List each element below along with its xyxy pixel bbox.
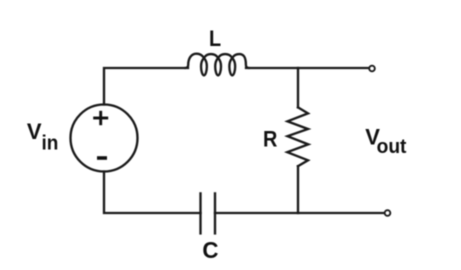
svg-text:C: C: [202, 237, 218, 263]
capacitor C right plate: [214, 193, 216, 233]
svg-text:out: out: [377, 136, 407, 158]
resistor R: [287, 107, 308, 166]
minus sign of source: [97, 156, 107, 160]
svg-text:R: R: [263, 126, 277, 151]
terminal top output: [369, 66, 375, 72]
node top junction to resistor R: [297, 68, 299, 107]
wire top from source to inductor: [104, 68, 188, 105]
wire source bottom to capacitor: [104, 172, 201, 214]
wire from inductor to top output terminal: [246, 67, 368, 69]
capacitor C left plate: [199, 193, 201, 233]
svg-text:V: V: [27, 119, 42, 144]
plus sign of source: [93, 111, 108, 125]
svg-text:in: in: [42, 132, 59, 155]
wire resistor bottom lead: [297, 166, 299, 213]
terminal bottom output: [385, 210, 391, 216]
svg-text:L: L: [209, 27, 221, 51]
voltage source V_in circle: [71, 105, 138, 172]
inductor L: [186, 54, 249, 76]
wire capacitor to bottom output terminal: [215, 212, 384, 214]
